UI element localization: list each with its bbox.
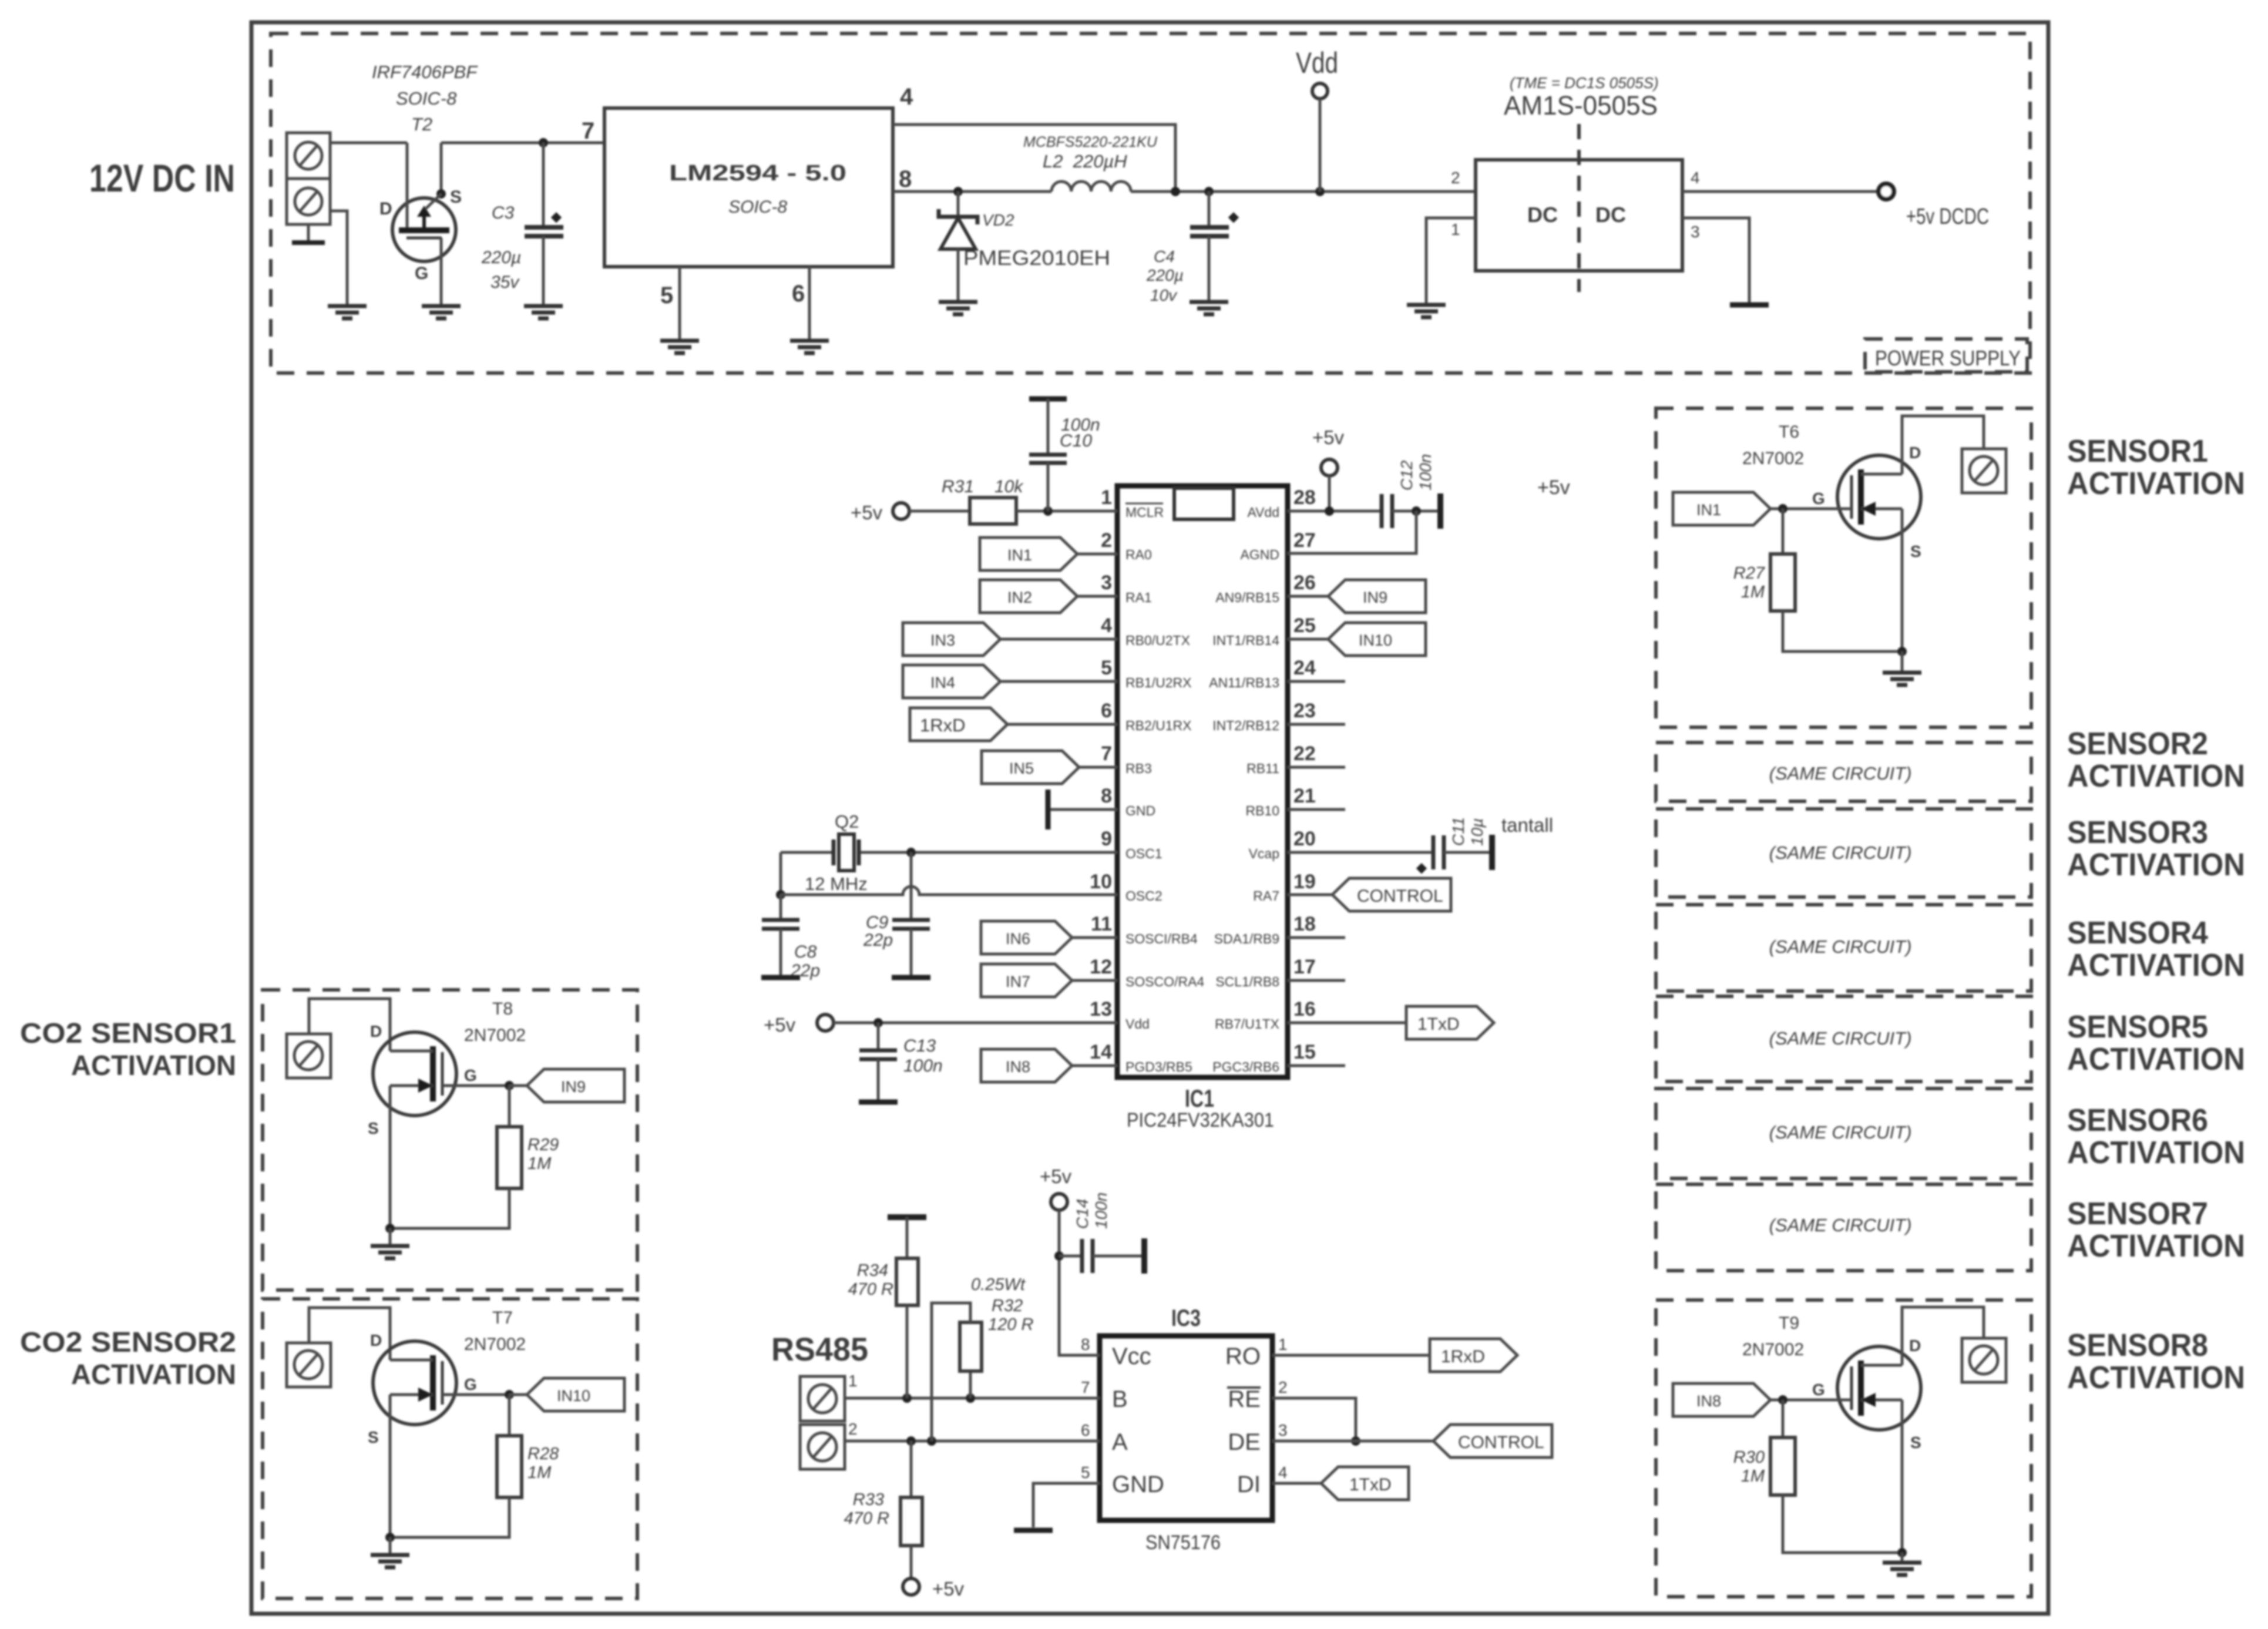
ground (X1 return): [328, 306, 367, 318]
svg-text:IN10: IN10: [1359, 632, 1392, 649]
svg-text:RB7/U1TX: RB7/U1TX: [1215, 1016, 1279, 1032]
svg-text:3: 3: [1101, 572, 1112, 594]
svg-text:+5v: +5v: [764, 1014, 796, 1036]
ground (T8 source): [385, 1224, 395, 1246]
label SENSOR7 ACTIVATION: [2067, 1196, 2245, 1264]
svg-text:1TxD: 1TxD: [1417, 1015, 1460, 1034]
svg-text:Vdd: Vdd: [1125, 1016, 1150, 1032]
stub pin 24: [1288, 680, 1345, 683]
flag IN1: [980, 538, 1117, 570]
svg-text:ACTIVATION: ACTIVATION: [2067, 466, 2245, 501]
svg-text:2: 2: [848, 1420, 858, 1438]
ground stub under X1: [292, 224, 325, 243]
flag IN6 (pin 11): [981, 921, 1117, 954]
svg-text:SENSOR3: SENSOR3: [2067, 815, 2208, 850]
svg-text:20: 20: [1293, 828, 1316, 850]
svg-text:A: A: [1112, 1429, 1128, 1455]
svg-text:IN9: IN9: [1363, 589, 1387, 606]
svg-text:4: 4: [1278, 1463, 1288, 1482]
svg-text:ACTIVATION: ACTIVATION: [2067, 1360, 2245, 1395]
label SENSOR8 ACTIVATION: [2067, 1328, 2245, 1395]
svg-text:IN4: IN4: [930, 674, 955, 691]
wire AGND pin 27: [1288, 511, 1416, 553]
svg-text:22p: 22p: [863, 931, 893, 950]
transistor T8 2N7002: [368, 999, 526, 1228]
svg-text:RA0: RA0: [1125, 547, 1152, 562]
svg-text:25: 25: [1293, 614, 1316, 637]
terminal RS485-2: [800, 1420, 858, 1469]
sensor 5 dashed box (same circuit): [1656, 996, 2031, 1081]
svg-text:PGD3/RB5: PGD3/RB5: [1125, 1059, 1192, 1074]
svg-text:(SAME CIRCUIT): (SAME CIRCUIT): [1769, 763, 1912, 784]
sensor 2 dashed box (same circuit): [1656, 743, 2031, 801]
svg-text:7: 7: [1101, 743, 1112, 765]
stub pin 23: [1288, 723, 1345, 726]
svg-text:DE: DE: [1228, 1429, 1261, 1455]
svg-text:R29: R29: [527, 1136, 559, 1154]
svg-text:(SAME CIRCUIT): (SAME CIRCUIT): [1769, 1215, 1912, 1235]
resistor R31 10k: [942, 477, 1024, 524]
sensor 1 dashed box: [1656, 408, 2031, 727]
svg-text:9: 9: [1101, 828, 1112, 850]
svg-text:AM1S-0505S: AM1S-0505S: [1504, 90, 1658, 120]
svg-text:SENSOR2: SENSOR2: [2067, 726, 2208, 761]
svg-text:RB1/U2RX: RB1/U2RX: [1125, 675, 1191, 690]
svg-text:SENSOR6: SENSOR6: [2067, 1103, 2208, 1138]
svg-text:27: 27: [1293, 529, 1316, 552]
svg-text:ACTIVATION: ACTIVATION: [2067, 948, 2245, 983]
transistor T7 2N7002: [368, 1308, 526, 1537]
resistor R29 1M: [390, 1086, 559, 1228]
svg-text:10: 10: [1090, 871, 1112, 893]
svg-text:AGND: AGND: [1241, 547, 1279, 562]
flag IN9 (CO2 sensor1): [505, 1069, 624, 1102]
svg-text:+5v: +5v: [1040, 1166, 1072, 1187]
svg-text:D: D: [370, 1331, 382, 1349]
capacitor C11 10u tantal: [1288, 814, 1553, 874]
wire terminal to T8 drain: [309, 999, 390, 1051]
svg-text:CONTROL: CONTROL: [1357, 886, 1443, 906]
svg-text:SN75176: SN75176: [1145, 1531, 1221, 1554]
svg-text:19: 19: [1293, 871, 1316, 893]
capacitor C4 220u 10v: [1146, 192, 1239, 304]
svg-text:R28: R28: [527, 1445, 559, 1463]
svg-text:PIC24FV32KA301: PIC24FV32KA301: [1127, 1109, 1274, 1131]
svg-text:5: 5: [660, 283, 673, 308]
wire B line: [845, 1393, 1100, 1403]
svg-text:SENSOR7: SENSOR7: [2067, 1196, 2208, 1231]
stub pin 15: [1288, 1064, 1345, 1067]
flag 1TxD (IC3 DI): [1272, 1467, 1409, 1500]
resistor R33 470R: [844, 1441, 922, 1578]
svg-text:ACTIVATION: ACTIVATION: [2067, 1042, 2245, 1077]
svg-text:2: 2: [1101, 529, 1112, 552]
svg-text:RB10: RB10: [1245, 803, 1279, 818]
svg-text:220µ: 220µ: [1146, 266, 1184, 284]
sensor 4 dashed box (same circuit): [1656, 905, 2031, 991]
ground (VD2): [939, 302, 977, 314]
ground bar (C9): [892, 977, 930, 978]
label SENSOR2 ACTIVATION: [2067, 726, 2245, 794]
inductor L2 220uH: [1023, 134, 1158, 192]
terminal (CO2 sensor 1): [287, 1034, 331, 1078]
regulator LM2594-5.0: [604, 108, 893, 267]
svg-text:MCLR: MCLR: [1125, 505, 1164, 520]
svg-text:G: G: [1812, 1381, 1825, 1399]
svg-text:11: 11: [1091, 913, 1112, 935]
svg-text:8: 8: [1081, 1335, 1090, 1353]
pin 4 output wire AM1S: [1682, 169, 1879, 192]
svg-text:INT1/RB14: INT1/RB14: [1212, 633, 1279, 648]
svg-text:23: 23: [1293, 700, 1316, 722]
svg-text:1RxD: 1RxD: [920, 715, 966, 735]
svg-text:GND: GND: [1125, 803, 1155, 818]
dcdc module AM1S-0505S: [1476, 74, 1682, 292]
svg-text:6: 6: [792, 281, 805, 307]
svg-text:(SAME CIRCUIT): (SAME CIRCUIT): [1769, 842, 1912, 863]
capacitor C10 100n: [1029, 399, 1100, 511]
svg-text:RA7: RA7: [1253, 888, 1279, 903]
svg-text:S: S: [368, 1428, 379, 1446]
ground bar (IC3 GND): [1014, 1530, 1053, 1531]
stub pin 18: [1288, 936, 1345, 939]
svg-text:+5v: +5v: [851, 502, 883, 523]
svg-text:IN8: IN8: [1006, 1058, 1030, 1076]
flag 1TxD (pin 16): [1288, 1006, 1494, 1039]
svg-text:C14: C14: [1073, 1199, 1091, 1229]
svg-text:1RxD: 1RxD: [1441, 1347, 1485, 1366]
svg-text:RO: RO: [1225, 1343, 1261, 1369]
svg-text:C10: C10: [1060, 431, 1092, 451]
svg-text:SOSCO/RA4: SOSCO/RA4: [1125, 974, 1204, 989]
svg-text:ACTIVATION: ACTIVATION: [2067, 1135, 2245, 1170]
svg-text:C12: C12: [1397, 460, 1416, 491]
svg-text:8: 8: [899, 166, 912, 192]
svg-text:12 MHz: 12 MHz: [805, 874, 868, 894]
svg-text:470 R: 470 R: [848, 1280, 893, 1299]
svg-text:R31: R31: [942, 477, 974, 496]
terminal RS485-1: [800, 1372, 858, 1421]
wire RE to DE: [1272, 1398, 1360, 1446]
wire +5v to R31: [909, 510, 970, 513]
svg-text:13: 13: [1090, 998, 1112, 1020]
svg-text:100n: 100n: [903, 1056, 943, 1076]
svg-text:18: 18: [1293, 913, 1316, 935]
wire X1 bottom to ground: [330, 211, 347, 306]
svg-text:+5v DCDC: +5v DCDC: [1906, 204, 1989, 229]
svg-text:ACTIVATION: ACTIVATION: [2067, 1228, 2245, 1264]
svg-text:2: 2: [1278, 1378, 1288, 1396]
svg-text:G: G: [415, 264, 428, 283]
svg-text:RA1: RA1: [1125, 590, 1152, 605]
CO2 sensor 2 dashed box: [263, 1299, 637, 1598]
svg-text:0.25Wt: 0.25Wt: [971, 1275, 1026, 1294]
svg-text:4: 4: [900, 84, 913, 110]
svg-text:Vcc: Vcc: [1112, 1343, 1151, 1369]
capacitor C14 100n: [1059, 1193, 1144, 1273]
wire T6 drain to terminal: [1902, 416, 1984, 474]
svg-text:220µ: 220µ: [481, 248, 521, 267]
svg-text:(SAME CIRCUIT): (SAME CIRCUIT): [1769, 1122, 1912, 1143]
svg-text:12: 12: [1090, 956, 1112, 978]
diode VD2 PMEG2010EH: [939, 192, 1110, 302]
flag IN5: [982, 751, 1117, 784]
svg-text:OSC1: OSC1: [1125, 846, 1162, 861]
svg-text:T9: T9: [1779, 1314, 1799, 1333]
supply bar (C11): [1491, 835, 1493, 870]
svg-text:IN10: IN10: [557, 1387, 590, 1405]
svg-text:G: G: [464, 1375, 477, 1393]
svg-text:IN6: IN6: [1006, 930, 1030, 948]
svg-text:IN1: IN1: [1007, 546, 1032, 564]
node +5v (Vdd pin 13): [764, 1014, 834, 1036]
wire X1 top to T2 drain: [330, 142, 407, 145]
svg-text:ACTIVATION: ACTIVATION: [2067, 758, 2245, 794]
pin 5 stub and ground: [660, 267, 680, 341]
svg-text:6: 6: [1101, 700, 1112, 722]
svg-text:10v: 10v: [1150, 286, 1178, 304]
wire pin 28: [1288, 476, 1382, 516]
ground (C4): [1190, 302, 1228, 314]
svg-text:PMEG2010EH: PMEG2010EH: [963, 247, 1110, 270]
svg-text:100n: 100n: [1092, 1193, 1110, 1229]
svg-text:C11: C11: [1449, 817, 1467, 846]
svg-text:1M: 1M: [527, 1154, 552, 1173]
svg-text:17: 17: [1293, 956, 1316, 978]
svg-text:SENSOR1: SENSOR1: [2067, 434, 2208, 469]
stub pin 17: [1288, 979, 1345, 982]
stub pin 21: [1288, 808, 1345, 811]
svg-text:SDA1/RB9: SDA1/RB9: [1214, 931, 1279, 946]
svg-text:S: S: [1910, 1433, 1921, 1452]
label SENSOR1 ACTIVATION: [2067, 434, 2245, 501]
svg-text:T2: T2: [411, 114, 432, 135]
svg-text:5: 5: [1081, 1463, 1090, 1482]
capacitor C3 220u 35v: [481, 143, 563, 306]
svg-text:RB11: RB11: [1246, 761, 1279, 776]
svg-text:8: 8: [1101, 785, 1112, 807]
pin name labels IC1 left: [1125, 503, 1204, 1074]
transistor T2 IRF7406PBF: [372, 62, 478, 283]
resistor R32 120R termination: [932, 1275, 1033, 1441]
terminal (CO2 sensor 2): [287, 1343, 331, 1387]
svg-text:26: 26: [1293, 572, 1316, 594]
svg-text:1TxD: 1TxD: [1349, 1475, 1392, 1494]
pin numbers IC1 left: [1090, 486, 1112, 1063]
svg-text:R34: R34: [857, 1261, 888, 1280]
svg-text:S: S: [450, 187, 462, 207]
svg-text:3: 3: [1278, 1421, 1288, 1439]
svg-text:DC: DC: [1595, 203, 1626, 227]
svg-text:RB0/U2TX: RB0/U2TX: [1125, 633, 1190, 648]
svg-text:IC3: IC3: [1171, 1305, 1201, 1331]
svg-text:28: 28: [1293, 486, 1316, 509]
svg-text:(SAME CIRCUIT): (SAME CIRCUIT): [1769, 1028, 1912, 1049]
resistor R28 1M: [390, 1395, 559, 1537]
svg-text:C9: C9: [866, 913, 889, 932]
svg-text:C3: C3: [492, 203, 515, 223]
flag CONTROL (IC3 DE): [1272, 1425, 1552, 1457]
node +5v (R33): [903, 1578, 965, 1600]
svg-text:D: D: [370, 1022, 382, 1040]
POWER SUPPLY label box: [1865, 339, 2027, 372]
svg-text:S: S: [368, 1119, 379, 1137]
microcontroller IC1 PIC24FV32KA301: [1117, 486, 1288, 1131]
svg-text:G: G: [464, 1066, 477, 1084]
svg-text:C4: C4: [1154, 247, 1175, 266]
supply bar (R34 top): [888, 1214, 926, 1220]
label SENSOR3 ACTIVATION: [2067, 815, 2245, 882]
svg-text:Vdd: Vdd: [1296, 46, 1338, 79]
svg-text:D: D: [379, 199, 392, 219]
flag 1RxD (IC3 RO): [1272, 1339, 1517, 1372]
svg-text:AN9/RB15: AN9/RB15: [1215, 590, 1279, 605]
wire pin 8 GND plate: [1048, 790, 1117, 829]
svg-text:2: 2: [1451, 169, 1460, 187]
flag 1RxD (pin 6): [910, 708, 1117, 741]
transistor T6 2N7002: [1742, 422, 1921, 651]
svg-text:IN3: IN3: [930, 632, 955, 649]
label CO2 SENSOR1 ACTIVATION: [20, 1018, 236, 1081]
CO2 sensor 1 dashed box: [263, 990, 637, 1290]
svg-text:R27: R27: [1733, 564, 1766, 583]
label SENSOR4 ACTIVATION: [2067, 915, 2245, 983]
transistor T9 2N7002: [1742, 1314, 1921, 1553]
svg-text:R32: R32: [992, 1297, 1023, 1315]
svg-text:SOSCI/RB4: SOSCI/RB4: [1125, 931, 1198, 946]
svg-text:5: 5: [1101, 657, 1112, 679]
capacitor C9 22p: [863, 852, 930, 975]
pin numbers IC3: [1081, 1335, 1288, 1482]
svg-text:Q2: Q2: [835, 811, 859, 832]
svg-text:470 R: 470 R: [844, 1509, 889, 1528]
svg-text:SENSOR5: SENSOR5: [2067, 1009, 2208, 1044]
node +5v (C14): [1040, 1166, 1072, 1210]
svg-text:IRF7406PBF: IRF7406PBF: [372, 62, 478, 82]
svg-text:SOIC-8: SOIC-8: [728, 197, 787, 217]
capacitor C12 100n: [1382, 454, 1440, 528]
svg-text:ACTIVATION: ACTIVATION: [2067, 847, 2245, 882]
svg-text:12V DC IN: 12V DC IN: [89, 156, 235, 200]
svg-text:D: D: [1909, 1336, 1921, 1355]
svg-text:RS485: RS485: [771, 1331, 868, 1368]
svg-text:T8: T8: [492, 999, 513, 1019]
svg-text:SCL1/RB8: SCL1/RB8: [1215, 974, 1279, 989]
svg-text:DC: DC: [1527, 203, 1558, 227]
label SENSOR6 ACTIVATION: [2067, 1103, 2245, 1170]
svg-text:7: 7: [1081, 1378, 1090, 1396]
wire R31 to MCLR pin 1: [1016, 506, 1117, 516]
crystal Q2 12MHz: [781, 811, 1117, 894]
svg-text:S: S: [1910, 542, 1921, 560]
node +5v (AVdd pin 28): [1312, 426, 1345, 476]
svg-text:1: 1: [1278, 1335, 1288, 1353]
svg-text:RE: RE: [1228, 1386, 1261, 1412]
svg-text:RB3: RB3: [1125, 761, 1152, 776]
svg-text:IN1: IN1: [1696, 501, 1721, 519]
svg-text:ACTIVATION: ACTIVATION: [71, 1050, 236, 1081]
svg-text:10µ: 10µ: [1468, 818, 1486, 846]
svg-text:2N7002: 2N7002: [464, 1335, 526, 1354]
svg-text:B: B: [1112, 1386, 1128, 1412]
svg-text:AVdd: AVdd: [1247, 505, 1279, 520]
svg-text:1M: 1M: [527, 1463, 552, 1482]
svg-text:IN5: IN5: [1009, 760, 1034, 777]
svg-text:CO2 SENSOR1: CO2 SENSOR1: [20, 1018, 236, 1049]
connector X1 12V input: [287, 133, 330, 224]
sensor 8 dashed box: [1656, 1300, 2031, 1597]
svg-text:LM2594 - 5.0: LM2594 - 5.0: [669, 161, 846, 186]
svg-text:VD2: VD2: [982, 211, 1014, 229]
svg-text:+5v: +5v: [932, 1578, 965, 1600]
svg-text:+5v: +5v: [1537, 476, 1570, 499]
svg-text:R30: R30: [1733, 1448, 1765, 1467]
flag IN8 (pin 14): [981, 1049, 1117, 1082]
ground (T9 source): [1897, 1548, 1907, 1563]
flag IN2: [980, 580, 1117, 613]
terminal +5v DCDC: [1879, 184, 1989, 229]
capacitor C8 22p: [762, 895, 820, 980]
svg-text:L2 220µH: L2 220µH: [1043, 151, 1127, 172]
node Vdd: [1296, 46, 1338, 192]
pin numbers IC1 right: [1293, 486, 1316, 1063]
svg-text:(SAME CIRCUIT): (SAME CIRCUIT): [1769, 936, 1912, 957]
pin 6 stub and ground: [792, 267, 809, 341]
svg-text:AN11/RB13: AN11/RB13: [1209, 675, 1279, 690]
svg-text:INT2/RB12: INT2/RB12: [1212, 718, 1279, 733]
svg-text:R33: R33: [853, 1490, 884, 1509]
svg-text:10k: 10k: [994, 477, 1024, 496]
svg-text:DI: DI: [1237, 1472, 1261, 1497]
svg-text:PGC3/RB6: PGC3/RB6: [1212, 1059, 1279, 1074]
svg-text:120 R: 120 R: [988, 1315, 1033, 1334]
wire T9 drain to terminal: [1902, 1307, 1984, 1365]
ground (T2 gate): [422, 306, 461, 318]
flag IN10 (CO2 sensor2): [505, 1378, 624, 1411]
svg-text:D: D: [1909, 444, 1921, 462]
svg-text:G: G: [1812, 489, 1825, 508]
supply bar (C12): [1440, 493, 1441, 529]
ground (T6 source): [1897, 647, 1907, 673]
flag IN8 (sensor 8): [1673, 1383, 1787, 1416]
ground bar (C8): [761, 977, 800, 978]
svg-text:C8: C8: [794, 942, 817, 962]
svg-text:CONTROL: CONTROL: [1458, 1433, 1544, 1452]
flag IN1 (sensor 1): [1673, 492, 1787, 525]
svg-text:(TME = DC1S 0505S): (TME = DC1S 0505S): [1510, 74, 1659, 92]
svg-text:1: 1: [1451, 220, 1460, 239]
svg-text:SOIC-8: SOIC-8: [396, 88, 457, 109]
wire A line: [845, 1436, 1100, 1446]
capacitor C13 100n: [859, 1023, 943, 1102]
power supply dashed box: [271, 33, 2030, 373]
flag IN9 (pin 26): [1288, 580, 1426, 613]
svg-text:14: 14: [1090, 1041, 1112, 1063]
transceiver IC3 SN75176: [1100, 1305, 1272, 1554]
flag IN3: [903, 623, 1117, 656]
svg-text:OSC2: OSC2: [1125, 888, 1162, 903]
svg-text:POWER SUPPLY: POWER SUPPLY: [1875, 346, 2021, 370]
svg-text:100n: 100n: [1416, 454, 1434, 491]
svg-text:SENSOR8: SENSOR8: [2067, 1328, 2208, 1363]
svg-text:2N7002: 2N7002: [1742, 449, 1804, 468]
ground (C3): [524, 306, 563, 318]
sensor 6 dashed box (same circuit): [1656, 1089, 2031, 1178]
flag IN4: [903, 665, 1117, 698]
label SENSOR5 ACTIVATION: [2067, 1009, 2245, 1077]
svg-text:21: 21: [1293, 785, 1316, 807]
pin 3 wire and ground AM1S: [1682, 218, 1749, 305]
